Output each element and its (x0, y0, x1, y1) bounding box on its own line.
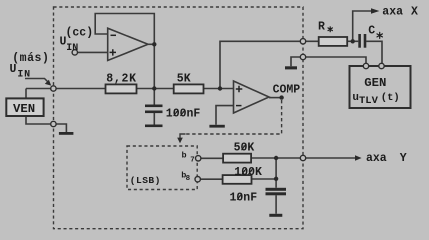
svg-text:VEN: VEN (13, 102, 35, 116)
svg-text:(más): (más) (12, 52, 49, 65)
svg-text:axa: axa (366, 152, 387, 165)
svg-text:(LSB): (LSB) (130, 175, 161, 186)
svg-text:100nF: 100nF (166, 107, 201, 120)
svg-text:TLV: TLV (359, 95, 379, 107)
svg-text:U: U (10, 63, 17, 76)
svg-text:50K: 50K (234, 142, 255, 155)
svg-text:GEN: GEN (364, 76, 386, 90)
svg-text:COMP: COMP (273, 83, 301, 96)
svg-text:8: 8 (186, 175, 191, 183)
svg-text:Y: Y (400, 152, 407, 165)
svg-text:IN: IN (17, 70, 30, 81)
svg-text:10nF: 10nF (230, 191, 258, 204)
svg-text:(t): (t) (381, 92, 400, 104)
svg-text:(cc): (cc) (66, 26, 94, 39)
svg-text:100K: 100K (234, 166, 262, 179)
svg-text:b: b (182, 151, 187, 161)
svg-text:R: R (318, 21, 325, 34)
svg-text:7: 7 (190, 156, 195, 164)
svg-text:8,2K: 8,2K (106, 72, 136, 85)
svg-text:X: X (411, 6, 418, 19)
svg-text:IN: IN (66, 43, 78, 54)
svg-text:5K: 5K (177, 73, 191, 86)
svg-text:C: C (368, 25, 375, 38)
svg-text:axa: axa (382, 6, 403, 19)
